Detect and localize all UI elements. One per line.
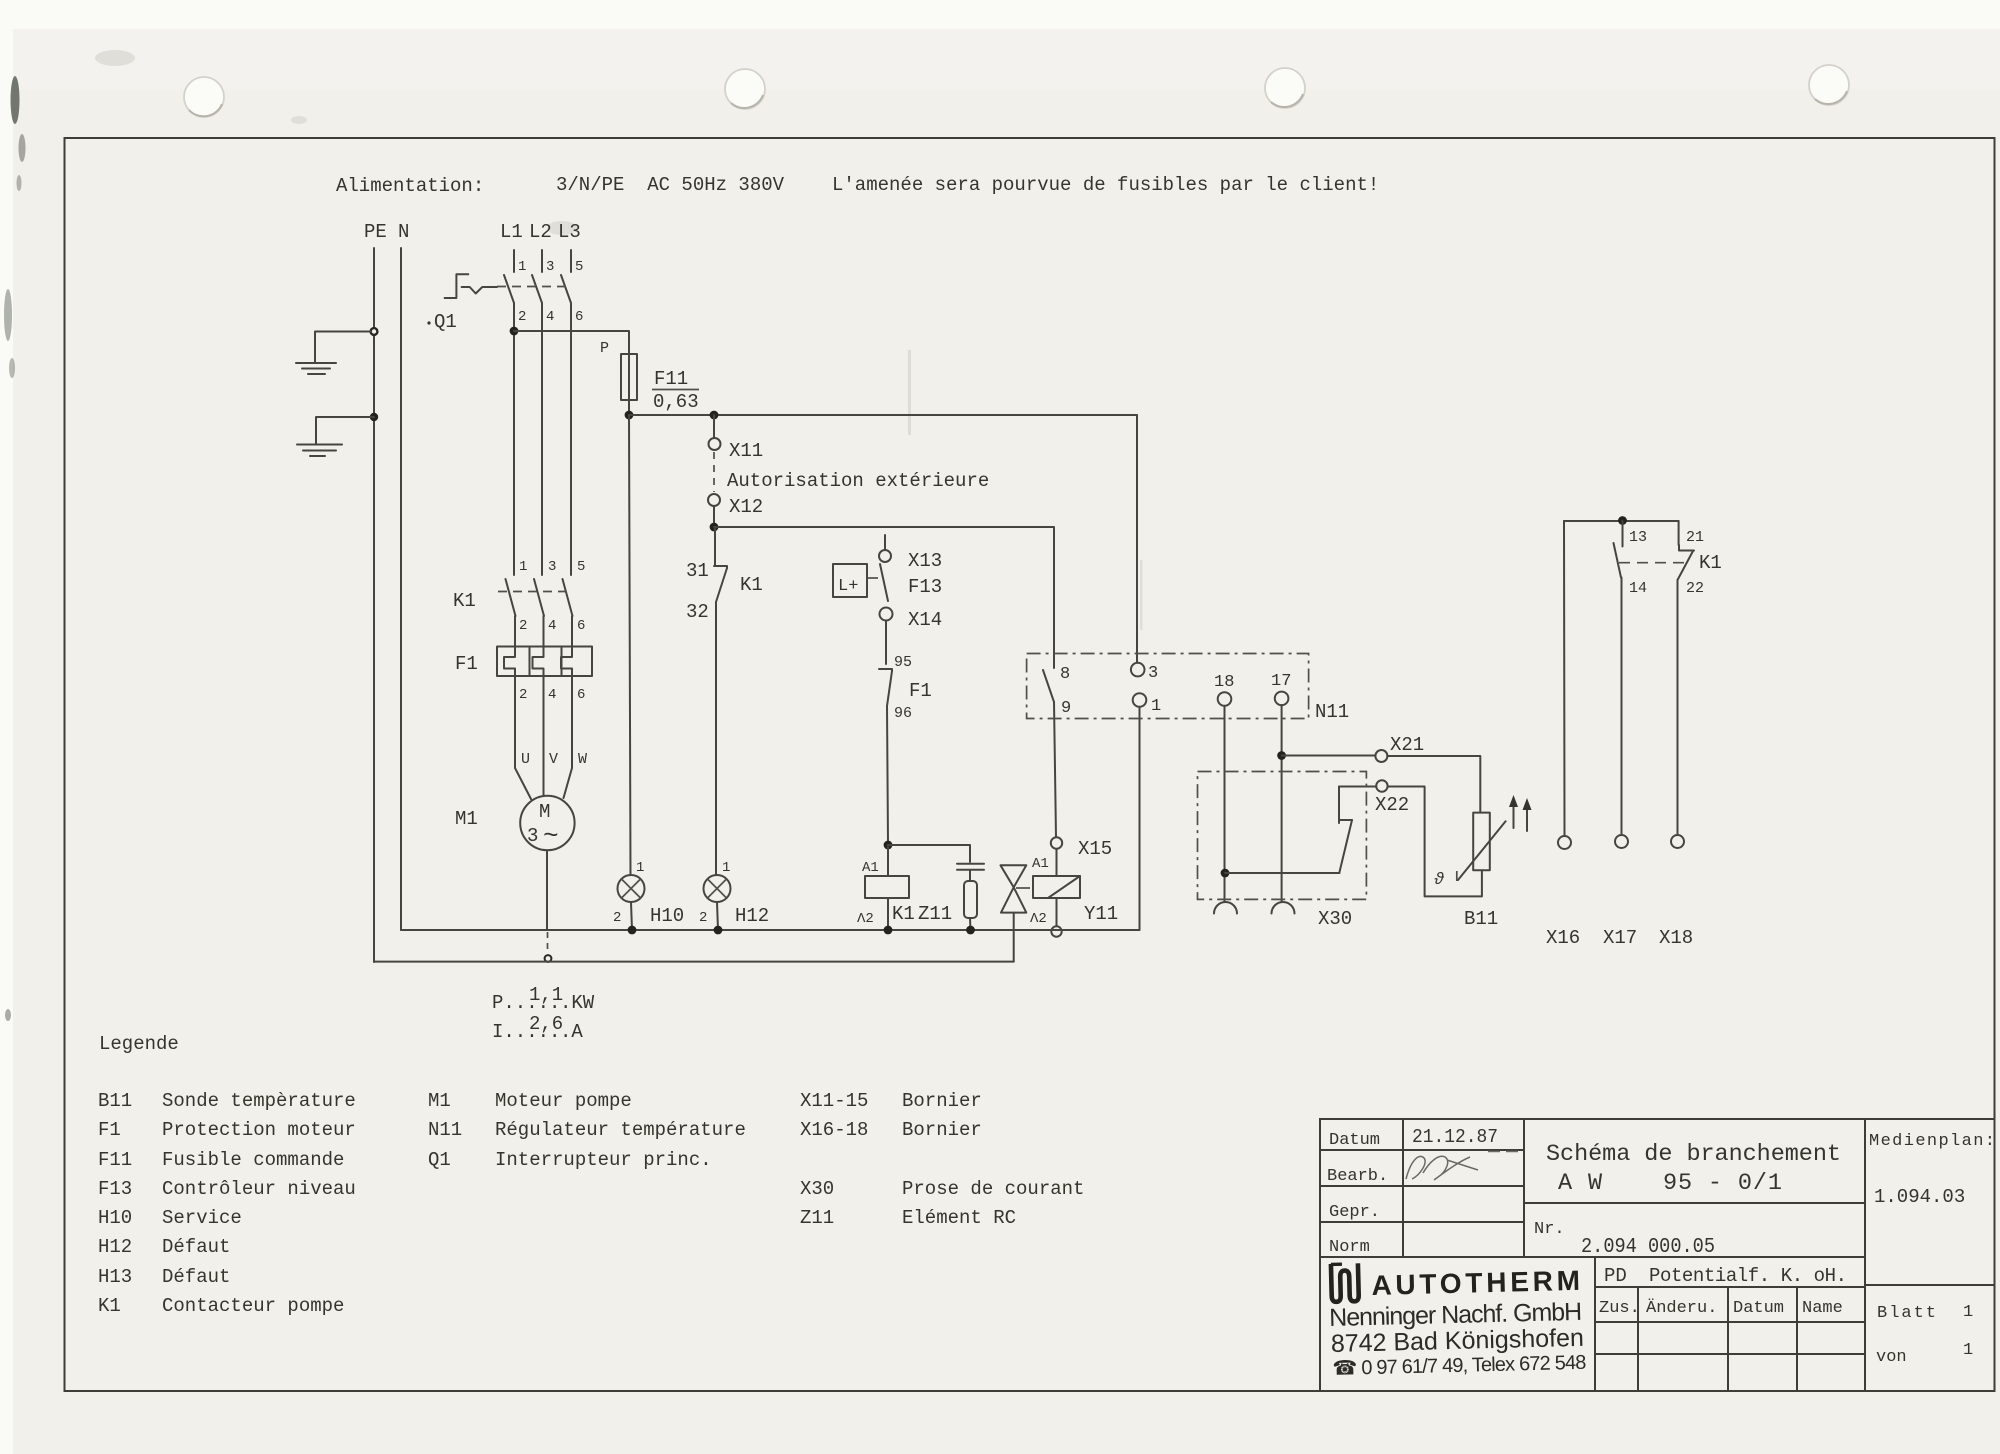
svg-text:1: 1: [636, 860, 644, 876]
svg-text:X18: X18: [1659, 927, 1693, 949]
terminal X15: [1051, 837, 1062, 848]
terminal N11 pin 3: [1131, 663, 1145, 677]
junction 17-line X21 tap: [1277, 751, 1286, 760]
svg-text:18: 18: [1214, 673, 1234, 692]
svg-text:Bearb.: Bearb.: [1327, 1167, 1388, 1186]
signature: [1406, 1156, 1478, 1180]
svg-text:4: 4: [548, 618, 556, 634]
wires K1 to F1: [514, 616, 516, 647]
wire L1 to K1: [513, 303, 515, 575]
svg-text:21.12.87: 21.12.87: [1412, 1126, 1498, 1148]
coil Y11 (valve solenoid): [1033, 876, 1080, 926]
contact K1 31-32 (NC): [714, 527, 727, 602]
svg-text:H10: H10: [650, 905, 684, 927]
svg-text:2.094 000.05: 2.094 000.05: [1581, 1236, 1715, 1259]
svg-text:3: 3: [1148, 664, 1158, 683]
dashed link K1 aux: [1619, 562, 1686, 564]
svg-text:17: 17: [1271, 672, 1291, 691]
svg-text:L'amenée sera pourvue de fusib: L'amenée sera pourvue de fusibles par le…: [832, 174, 1379, 196]
svg-text:L+: L+: [838, 577, 858, 596]
svg-text:N11: N11: [1315, 701, 1349, 723]
svg-text:F1: F1: [455, 653, 478, 675]
svg-text:21: 21: [1686, 529, 1704, 546]
wire to X16: [1563, 521, 1566, 836]
junction K1 coil top: [884, 841, 893, 850]
ground 2: [297, 413, 378, 456]
svg-text:8: 8: [1060, 665, 1070, 684]
motor M1: [520, 796, 574, 851]
junction below F11: [625, 411, 634, 420]
socket X30 box: [1198, 772, 1367, 900]
svg-text:4: 4: [548, 687, 556, 703]
terminal X21: [1375, 750, 1387, 762]
svg-text:1: 1: [1151, 697, 1161, 716]
terminal N11 pin 18: [1218, 692, 1232, 706]
svg-text:Name: Name: [1802, 1299, 1843, 1318]
junction X12 out: [710, 523, 719, 532]
svg-text:ϑ: ϑ: [1434, 871, 1445, 890]
wire N11 pin 17 down: [1281, 705, 1283, 901]
svg-text:PD: PD: [1604, 1265, 1627, 1287]
wire bus to N11 pin 1: [1139, 707, 1141, 930]
svg-text:Service: Service: [162, 1207, 242, 1229]
svg-text:K1: K1: [1699, 552, 1722, 574]
svg-text:X17: X17: [1603, 927, 1637, 949]
svg-text:Elément RC: Elément RC: [902, 1207, 1016, 1229]
valve symbol: [1001, 865, 1031, 912]
arrows B11: [1509, 795, 1532, 831]
svg-text:H12: H12: [98, 1236, 132, 1258]
bus PE (lowest): [374, 961, 1014, 963]
svg-text:Z11: Z11: [800, 1207, 834, 1229]
svg-text:Datum: Datum: [1733, 1299, 1784, 1318]
wire L2 to K1: [541, 303, 543, 575]
sensor B11 (thermistor): [1434, 813, 1506, 890]
switch Q1: [445, 250, 571, 303]
junction Z11-bus: [966, 926, 975, 935]
wire K1 aux top: [1564, 520, 1679, 522]
title block grid: [1320, 1119, 1995, 1391]
wire valve to PE bus: [1013, 913, 1015, 962]
svg-text:Blatt: Blatt: [1877, 1304, 1938, 1323]
contact F13: [880, 564, 888, 601]
svg-text:Q1: Q1: [428, 1149, 451, 1171]
regulator N11 box: [1027, 654, 1309, 719]
svg-text:Schéma de branchement: Schéma de branchement: [1546, 1141, 1841, 1168]
contact N11 8-9: [1043, 670, 1054, 702]
wire X21 to B11: [1387, 756, 1480, 813]
svg-text:Prose de courant: Prose de courant: [902, 1178, 1084, 1200]
svg-text:Fusible commande: Fusible commande: [162, 1149, 344, 1171]
svg-text:W: W: [578, 751, 587, 768]
svg-text:Interrupteur princ.: Interrupteur princ.: [495, 1149, 712, 1171]
svg-text:Contrôleur niveau: Contrôleur niveau: [162, 1178, 356, 1200]
svg-text:K1: K1: [453, 590, 476, 612]
terminal X17: [1615, 835, 1628, 848]
svg-text:X14: X14: [908, 609, 942, 631]
terminal X18: [1671, 835, 1684, 848]
svg-text:F1: F1: [98, 1119, 121, 1141]
wire down to N11 pin 3: [1136, 415, 1138, 663]
svg-text:X30: X30: [800, 1178, 834, 1200]
svg-text:H13: H13: [98, 1266, 132, 1288]
contact inside X30: [1339, 787, 1352, 873]
svg-text:F13: F13: [908, 576, 942, 598]
wire B11 bottom to X22: [1388, 787, 1482, 897]
svg-text:Λ2: Λ2: [1030, 911, 1047, 927]
wires F1 to motor: [515, 676, 531, 799]
svg-text:Nr.: Nr.: [1534, 1220, 1565, 1239]
svg-text:X12: X12: [729, 496, 763, 518]
svg-text:96: 96: [894, 705, 912, 722]
svg-text:14: 14: [1629, 580, 1647, 597]
wire N rail: [400, 248, 402, 930]
svg-text:Bornier: Bornier: [902, 1090, 982, 1112]
svg-text:Autorisation extérieure: Autorisation extérieure: [727, 470, 989, 492]
svg-text:K1: K1: [98, 1295, 121, 1317]
svg-text:X21: X21: [1390, 734, 1424, 756]
svg-text:1.094.03: 1.094.03: [1874, 1186, 1965, 1208]
level switch F13 box L+: [833, 564, 867, 597]
svg-text:N11: N11: [428, 1119, 462, 1141]
svg-text:Λ2: Λ2: [857, 911, 874, 927]
svg-text:Potentialf. K. oH.: Potentialf. K. oH.: [1649, 1265, 1847, 1287]
wire 96 to K1 coil: [887, 706, 888, 844]
svg-text:Bornier: Bornier: [902, 1119, 982, 1141]
svg-text:3: 3: [527, 825, 538, 847]
svg-text:3/N/PE AC 50Hz 380V: 3/N/PE AC 50Hz 380V: [556, 174, 785, 196]
svg-text:F11: F11: [98, 1149, 132, 1171]
junction X11 tap: [710, 411, 719, 420]
svg-text:2,6: 2,6: [529, 1013, 563, 1035]
contact K1 13-14 (NO): [1614, 521, 1623, 835]
wire N11 pin 18 down: [1224, 706, 1226, 901]
svg-text:Alimentation:: Alimentation:: [336, 175, 484, 197]
svg-text:5: 5: [577, 559, 585, 575]
overload relay F1: [497, 647, 592, 677]
svg-text:Änderu.: Änderu.: [1646, 1298, 1717, 1318]
wire N11 pin 9 to X15: [1054, 702, 1056, 837]
svg-text:6: 6: [575, 309, 583, 325]
svg-text:1,1: 1,1: [529, 984, 563, 1006]
svg-text:PE: PE: [364, 221, 387, 243]
svg-text:M: M: [539, 801, 550, 823]
terminal Y11-A2 on bus: [1051, 926, 1061, 936]
fuse F11: [621, 354, 637, 416]
svg-text:2: 2: [519, 618, 527, 634]
svg-text:1: 1: [1963, 1303, 1973, 1322]
svg-text:2: 2: [613, 910, 621, 926]
svg-text:A W 95 - 0/1: A W 95 - 0/1: [1558, 1170, 1782, 1197]
svg-text:Gepr.: Gepr.: [1329, 1203, 1380, 1222]
wire control feed (top horizontal): [629, 414, 1137, 416]
svg-text:X16-18: X16-18: [800, 1119, 868, 1141]
svg-text:Norm: Norm: [1329, 1238, 1370, 1257]
svg-text:Sonde tempèrature: Sonde tempèrature: [162, 1090, 356, 1112]
svg-text:22: 22: [1686, 580, 1704, 597]
svg-text:Zus.: Zus.: [1599, 1299, 1640, 1318]
terminal N11 pin 17: [1275, 692, 1289, 706]
junction H12-bus: [714, 926, 723, 935]
svg-text:6: 6: [577, 618, 585, 634]
svg-text:V: V: [549, 751, 558, 768]
svg-text:X22: X22: [1375, 794, 1409, 816]
svg-text:Z11: Z11: [918, 903, 952, 925]
terminal X22: [1376, 780, 1387, 791]
wire L1 tap to fuse F11: [514, 331, 629, 354]
RC element Z11: [888, 845, 984, 930]
svg-text:U: U: [521, 751, 530, 768]
svg-text:4: 4: [546, 309, 554, 325]
svg-text:0,63: 0,63: [653, 391, 699, 413]
terminal X13: [884, 535, 886, 549]
svg-text:6: 6: [577, 687, 585, 703]
svg-text:3: 3: [548, 559, 556, 575]
svg-text:Contacteur pompe: Contacteur pompe: [162, 1295, 344, 1317]
svg-text:Régulateur température: Régulateur température: [495, 1119, 746, 1141]
svg-text:X11: X11: [729, 440, 763, 462]
svg-text:Q1: Q1: [434, 311, 457, 333]
terminal X16: [1558, 836, 1571, 849]
svg-text:A1: A1: [1032, 856, 1049, 872]
punch holes: [184, 65, 1849, 117]
svg-text:1: 1: [518, 259, 526, 275]
contact K1 21-22 (NC): [1678, 521, 1695, 835]
svg-text:32: 32: [686, 601, 709, 623]
svg-text:31: 31: [686, 560, 709, 582]
svg-text:M1: M1: [428, 1090, 451, 1112]
svg-text:K1: K1: [740, 574, 763, 596]
wire to X21: [1282, 755, 1376, 757]
svg-text:B11: B11: [1464, 908, 1498, 930]
wire X12 to N11 contact 8: [714, 527, 1054, 668]
scan smudges: [4, 76, 26, 1021]
svg-text:X15: X15: [1078, 838, 1112, 860]
svg-text:1: 1: [722, 860, 730, 876]
svg-text:von: von: [1876, 1348, 1907, 1367]
svg-text:9: 9: [1061, 699, 1071, 718]
svg-text:N: N: [398, 221, 409, 243]
terminal X11: [713, 415, 715, 438]
socket contact arcs: [1214, 902, 1237, 914]
svg-text:2: 2: [699, 910, 707, 926]
svg-text:1: 1: [1963, 1341, 1973, 1360]
lamp H12: [704, 875, 731, 930]
svg-text:P: P: [600, 340, 609, 357]
ground 1: [296, 328, 377, 374]
svg-text:X16: X16: [1546, 927, 1580, 949]
svg-text:Datum: Datum: [1329, 1131, 1380, 1150]
svg-text:2: 2: [518, 309, 526, 325]
junction K1coil-bus: [884, 926, 893, 935]
wire motor down: [546, 850, 548, 930]
junction L1 tap: [510, 327, 519, 336]
svg-text:3: 3: [546, 259, 554, 275]
svg-text:K1: K1: [892, 903, 915, 925]
svg-text:H12: H12: [735, 905, 769, 927]
svg-text:X11-15: X11-15: [800, 1090, 868, 1112]
svg-text:L2: L2: [529, 221, 552, 243]
coil K1: [865, 845, 909, 930]
wire H10 feeder: [629, 415, 631, 875]
svg-text:F1: F1: [909, 680, 932, 702]
svg-text:M1: M1: [455, 808, 478, 830]
svg-text:H10: H10: [98, 1207, 132, 1229]
svg-text:A1: A1: [862, 860, 879, 876]
terminal X14: [880, 608, 893, 621]
svg-text:95: 95: [894, 654, 912, 671]
svg-text:Legende: Legende: [99, 1033, 179, 1055]
svg-text:5: 5: [575, 259, 583, 275]
svg-text:Medienplan:: Medienplan:: [1869, 1132, 1995, 1151]
wire X30 internal: [1225, 872, 1340, 874]
wire 32 to lamp H12: [715, 602, 717, 875]
svg-text:Protection moteur: Protection moteur: [162, 1119, 356, 1141]
svg-text:1: 1: [519, 559, 527, 575]
contactor K1 main poles: [498, 579, 573, 616]
svg-text:L1: L1: [500, 221, 523, 243]
terminal N11 pin 1: [1133, 693, 1147, 707]
svg-text:B11: B11: [98, 1090, 132, 1112]
svg-text:L3: L3: [558, 221, 581, 243]
junction aux top: [1618, 516, 1627, 525]
contact F1 95-96 (NC): [879, 669, 892, 706]
terminal X12: [708, 494, 720, 506]
svg-text:~: ~: [543, 821, 559, 851]
svg-text:F13: F13: [98, 1178, 132, 1200]
svg-text:AUTOTHERM: AUTOTHERM: [1371, 1265, 1584, 1301]
svg-text:Défaut: Défaut: [162, 1266, 230, 1288]
terminal motor PE: [545, 955, 552, 962]
svg-text:F11: F11: [654, 368, 688, 390]
svg-text:X13: X13: [908, 550, 942, 572]
logo AUTOTHERM: [1331, 1263, 1359, 1302]
svg-text:13: 13: [1629, 529, 1647, 546]
svg-text:2: 2: [519, 687, 527, 703]
wire X22 into X30: [1339, 786, 1376, 788]
wire X11-X12 dashed: [713, 452, 715, 492]
svg-text:Défaut: Défaut: [162, 1236, 230, 1258]
wire PE rail: [373, 248, 375, 962]
bus N (lower): [401, 929, 1140, 931]
lamp H10: [618, 875, 645, 930]
svg-text:Y11: Y11: [1084, 903, 1118, 925]
svg-text:X30: X30: [1318, 908, 1352, 930]
wire L3 to K1: [570, 303, 572, 575]
junction 18-line inside X30: [1221, 869, 1230, 878]
svg-text:Moteur pompe: Moteur pompe: [495, 1090, 632, 1112]
AUTOTHERM stamp: [1328, 1258, 1587, 1380]
wire motor PE dashed: [547, 932, 549, 953]
svg-text:.A: .A: [560, 1021, 583, 1043]
junction H10-bus: [628, 926, 637, 935]
svg-text:.KW: .KW: [560, 992, 595, 1014]
